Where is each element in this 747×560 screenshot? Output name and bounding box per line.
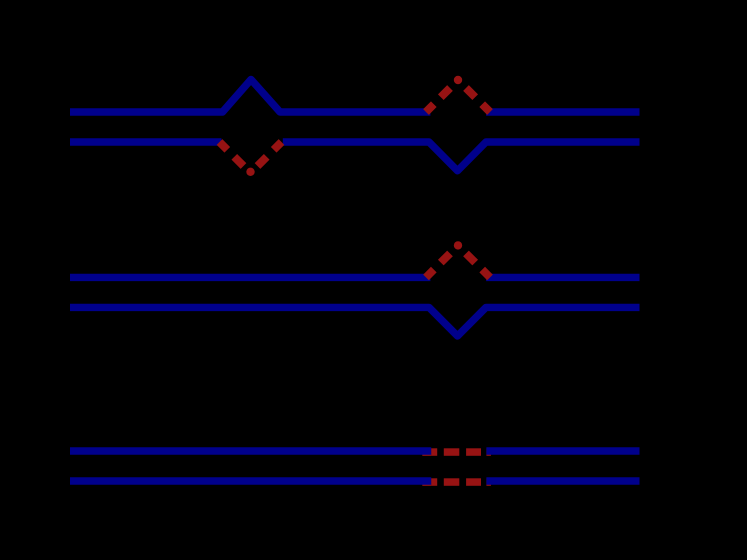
pair 2 bottom strand with blue downward loop	[70, 307, 640, 336]
pair 2 top strand red dashed loop left-slope dash 1	[426, 270, 434, 278]
pair 2 top strand red dashed loop left-slope dash 2	[441, 253, 450, 262]
pair 1 bottom strand with blue downward loop	[283, 142, 640, 171]
pair 3 top strand right segment	[486, 447, 639, 454]
pair 3 bottom strand red dash 2	[444, 478, 460, 486]
pair 1 bottom strand left segment	[70, 138, 221, 145]
pair 1 top strand red dashed loop left-slope dash 1	[426, 104, 434, 112]
pair 3 top strand red dashed sliver left	[422, 448, 431, 456]
pair 1 top strand red dashed loop right-slope dash 1	[482, 104, 490, 112]
pair 3 top strand red dash 2	[444, 448, 460, 456]
pair 2 top strand red dashed loop right-slope dash 2	[466, 253, 475, 262]
pair 3 top strand left segment	[70, 447, 431, 454]
pair 1 bottom strand red dashed loop right-slope dash 2	[258, 157, 267, 166]
pair 3 bottom strand red dashed sliver left	[422, 478, 431, 486]
pair 2 top strand red dashed loop right-slope dash 1	[482, 270, 490, 278]
pair 1 top strand right segment	[486, 108, 639, 115]
pair 2 top strand left segment	[70, 274, 430, 281]
pair 1 top strand red dashed loop apex dot	[454, 76, 462, 84]
pair 1 bottom strand red dashed loop left-slope dash 1	[220, 142, 228, 150]
pair 1 bottom strand red dashed loop left-slope dash 2	[234, 157, 243, 166]
pair 3 bottom strand red dash 3	[466, 478, 481, 486]
pair 3 top strand red dash 1	[431, 448, 437, 456]
pair 2 top strand right segment	[486, 274, 639, 281]
pair 3 top strand red dash 3	[466, 448, 481, 456]
pair 3 bottom strand left segment	[70, 477, 431, 484]
pair 1 top strand with blue insertion loop	[70, 80, 430, 113]
pair 2 top strand red dashed loop apex dot	[454, 241, 462, 249]
pair 3 bottom strand right segment	[486, 477, 639, 484]
pair 1 bottom strand red dashed loop right-slope dash 1	[274, 142, 282, 150]
pair 1 top strand red dashed loop right-slope dash 2	[466, 88, 475, 97]
pair 1 bottom strand red dashed loop apex dot	[246, 168, 254, 176]
pair 3 top strand red dashed sliver right	[486, 448, 491, 456]
pair 3 bottom strand red dashed sliver right	[486, 478, 491, 486]
pair 1 top strand red dashed loop left-slope dash 2	[441, 88, 450, 97]
pair 3 bottom strand red dash 1	[431, 478, 437, 486]
